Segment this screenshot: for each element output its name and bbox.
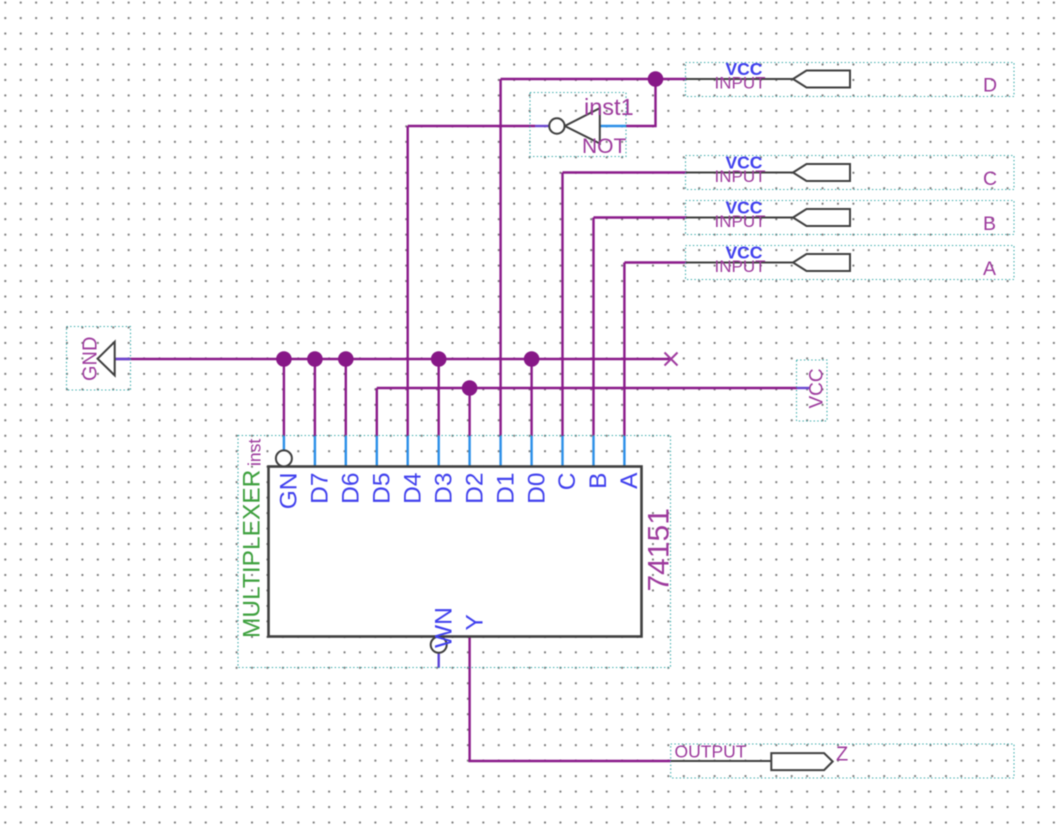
- svg-text:INPUT: INPUT: [715, 74, 766, 93]
- junction D2-VCC: [462, 380, 478, 396]
- input pin arrow: [793, 164, 850, 181]
- GN bubble: [276, 450, 292, 466]
- pin stub D3 blue: [438, 436, 440, 466]
- mux body: [269, 467, 642, 637]
- pin stub D2 blue: [468, 436, 470, 466]
- pin lead: [686, 217, 793, 219]
- input pin arrow: [793, 254, 850, 271]
- NOT triangle: [565, 108, 600, 143]
- wire D3 column: [438, 359, 440, 436]
- svg-text:GND: GND: [80, 337, 102, 381]
- wire Y output: [470, 637, 671, 762]
- wire input C row: [563, 171, 688, 173]
- input pin A: [686, 243, 1015, 281]
- svg-text:C: C: [554, 473, 581, 491]
- svg-text:NOT: NOT: [582, 135, 627, 158]
- wire B column: [592, 218, 594, 437]
- input pin arrow: [793, 209, 850, 226]
- wire NOT output to D4: [408, 125, 535, 127]
- junction D7-GND: [307, 351, 323, 367]
- svg-text:INPUT: INPUT: [715, 212, 766, 231]
- pin stub D5 blue: [376, 436, 378, 466]
- svg-text:B: B: [585, 473, 612, 489]
- svg-text:D7: D7: [307, 473, 334, 504]
- svg-text:GN: GN: [276, 473, 303, 510]
- output pin Z: [671, 742, 1014, 779]
- ground symbol GND: [67, 327, 131, 391]
- wire D1 column from input D: [499, 79, 501, 436]
- wire D7 column: [314, 359, 316, 436]
- svg-text:Y: Y: [461, 614, 488, 630]
- ground triangle: [98, 342, 115, 376]
- input pin B: [686, 198, 1015, 236]
- wire WN stub: [438, 653, 440, 668]
- pin stub D1 blue: [499, 436, 501, 466]
- wire D5 column: [376, 388, 378, 436]
- wire D2 column: [468, 388, 470, 436]
- pin stub NOT output blue: [600, 125, 626, 127]
- pin lead: [686, 262, 793, 264]
- svg-text:INPUT: INPUT: [715, 167, 766, 186]
- pin stub D7 blue: [314, 436, 316, 466]
- svg-text:WN: WN: [430, 607, 457, 648]
- pin lead: [671, 760, 771, 762]
- pin stub D6 blue: [345, 436, 347, 466]
- wire C column: [561, 173, 563, 437]
- wire A column: [623, 263, 625, 437]
- svg-text:B: B: [983, 213, 996, 235]
- pin stub D0 blue: [530, 436, 532, 466]
- output pin arrow: [771, 753, 832, 770]
- svg-text:D6: D6: [338, 473, 365, 504]
- svg-text:D4: D4: [399, 473, 426, 504]
- wire GND bus horizontal: [114, 358, 671, 360]
- svg-text:Z: Z: [836, 744, 848, 766]
- svg-text:74151: 74151: [643, 508, 676, 591]
- wire D4 column from NOT output: [407, 126, 409, 436]
- pin lead: [686, 172, 793, 174]
- svg-text:D: D: [983, 75, 997, 97]
- wire input A row: [624, 261, 687, 263]
- svg-text:VCC: VCC: [807, 368, 828, 408]
- pin stub B blue: [592, 436, 594, 466]
- pin stub C blue: [561, 436, 563, 466]
- wire GND-symbol stub: [114, 358, 130, 360]
- svg-text:inst: inst: [245, 439, 265, 466]
- svg-text:D5: D5: [369, 473, 396, 504]
- junction GN-GND: [276, 351, 292, 367]
- junction D0-GND: [524, 351, 540, 367]
- svg-text:OUTPUT: OUTPUT: [675, 742, 747, 762]
- svg-text:C: C: [983, 168, 997, 190]
- svg-text:D0: D0: [523, 473, 550, 504]
- svg-text:D1: D1: [492, 473, 519, 504]
- gate NOT inst1: [530, 93, 634, 159]
- svg-text:inst1: inst1: [584, 94, 634, 120]
- input pin D: [686, 59, 1015, 97]
- pin stub A blue: [623, 436, 625, 466]
- svg-text:D2: D2: [461, 473, 488, 504]
- pin stub D4 blue: [407, 436, 409, 466]
- multiplexer 74151 inst: [238, 436, 676, 668]
- WN bubble: [431, 637, 447, 653]
- wire VCC bus horizontal: [377, 387, 797, 389]
- wire D0 column: [530, 359, 532, 436]
- wire VCC-symbol stub: [797, 387, 810, 389]
- junction D3-GND: [431, 351, 447, 367]
- pin stub GN blue: [283, 436, 285, 451]
- wire input D row: [501, 78, 687, 80]
- wire GN column: [283, 359, 285, 436]
- svg-text:A: A: [616, 472, 643, 489]
- wire D6 column: [345, 359, 347, 436]
- svg-text:D3: D3: [430, 473, 457, 504]
- power symbol VCC: [797, 360, 828, 421]
- wire NOT output stub: [535, 125, 549, 127]
- svg-text:A: A: [983, 258, 996, 280]
- NOT bubble: [549, 118, 564, 133]
- junction D6-GND: [338, 351, 354, 367]
- wire NOT input branch: [626, 79, 656, 126]
- input pin C: [686, 153, 1015, 191]
- wire input B row: [594, 216, 688, 218]
- input pin arrow: [793, 71, 850, 88]
- node X end of GND bus: [665, 353, 678, 366]
- pin lead: [686, 78, 793, 80]
- junction D input / NOT branch: [648, 71, 664, 87]
- svg-text:INPUT: INPUT: [715, 257, 766, 276]
- svg-text:MULTIPLEXER: MULTIPLEXER: [239, 470, 266, 638]
